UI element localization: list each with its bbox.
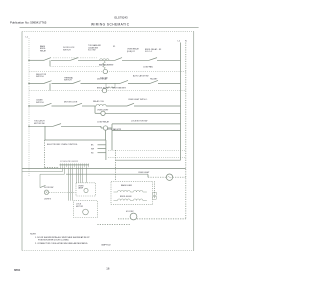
svg-text:VENT FAN MTR: VENT FAN MTR	[112, 87, 126, 90]
svg-text:BK: BK	[91, 145, 94, 147]
svg-text:8884: 8884	[14, 268, 21, 272]
svg-text:CONV RELAY: CONV RELAY	[97, 121, 110, 124]
svg-text:NOTE: NOTE	[30, 234, 36, 236]
svg-text:SWITCH: SWITCH	[36, 102, 44, 104]
svg-text:M CONV: M CONV	[126, 211, 134, 213]
svg-text:SWITCH: SWITCH	[36, 76, 44, 78]
svg-text:LAMP: LAMP	[78, 187, 84, 190]
svg-text:(DLB) K2: (DLB) K2	[127, 51, 135, 53]
svg-text:POSITION WITH DOOR CLOSED.: POSITION WITH DOOR CLOSED.	[38, 240, 70, 242]
svg-text:AUTO LATCH SW: AUTO LATCH SW	[133, 75, 149, 78]
svg-text:SWITCH: SWITCH	[63, 49, 71, 51]
svg-text:CONV FAN: CONV FAN	[143, 66, 153, 69]
svg-text:COOL FAN MTR: COOL FAN MTR	[107, 128, 122, 131]
svg-text:ELECTRONIC OVEN CONTROL: ELECTRONIC OVEN CONTROL	[47, 144, 78, 146]
svg-text:RELAY: RELAY	[40, 49, 47, 52]
svg-text:RELAY COIL: RELAY COIL	[93, 100, 104, 103]
svg-text:OVEN LIGHT: OVEN LIGHT	[97, 110, 109, 112]
svg-text:L1: L1	[26, 37, 29, 39]
svg-text:OVEN LIGHT: OVEN LIGHT	[138, 172, 150, 174]
svg-text:WIRING SCHEMATIC: WIRING SCHEMATIC	[91, 22, 130, 26]
svg-text:N.O. SW: N.O. SW	[88, 50, 96, 52]
svg-text:2. CONNECTOR CODE: AT BK: 2. CONNECTOR CODE: AT BK WH USED AS INDI…	[35, 242, 88, 245]
svg-text:ELS79243: ELS79243	[115, 15, 129, 19]
svg-text:MOTOR: MOTOR	[76, 206, 84, 208]
svg-text:1 2 3 4 5 6 7 8 9 10 11 12: 1 2 3 4 5 6 7 8 9 10 11 12	[60, 161, 78, 163]
svg-text:K1: K1	[113, 46, 115, 48]
svg-text:BROIL ELEM: BROIL ELEM	[120, 196, 132, 198]
svg-text:N: N	[185, 41, 187, 43]
svg-text:RD: RD	[91, 153, 94, 155]
svg-text:L2: L2	[178, 41, 181, 43]
svg-text:WH: WH	[91, 148, 95, 150]
svg-text:BAKE ELEM: BAKE ELEM	[121, 184, 132, 187]
svg-text:LIGHTS: LIGHTS	[44, 199, 52, 201]
svg-text:DLB RELAY: DLB RELAY	[97, 77, 108, 80]
svg-text:Publication No: 5995417765: Publication No: 5995417765	[10, 20, 47, 24]
svg-text:OVEN LIGHT SW N.O.: OVEN LIGHT SW N.O.	[128, 99, 148, 101]
svg-text:HI-LIMIT: HI-LIMIT	[150, 79, 158, 81]
svg-text:DOOR SW: DOOR SW	[44, 187, 53, 189]
svg-text:MOTOR SW: MOTOR SW	[34, 123, 45, 125]
svg-text:MOTOR DOOR: MOTOR DOOR	[64, 101, 78, 103]
svg-text:BAKE ELEMENT: BAKE ELEMENT	[99, 64, 114, 67]
svg-text:16: 16	[106, 266, 110, 270]
svg-text:N.O. 1-2: N.O. 1-2	[145, 51, 152, 53]
svg-text:318F7722: 318F7722	[101, 245, 111, 247]
svg-text:BROIL ELEM: BROIL ELEM	[97, 87, 109, 89]
svg-text:LOCK MOTOR SW: LOCK MOTOR SW	[131, 121, 147, 123]
svg-text:SWITCH: SWITCH	[64, 80, 72, 82]
